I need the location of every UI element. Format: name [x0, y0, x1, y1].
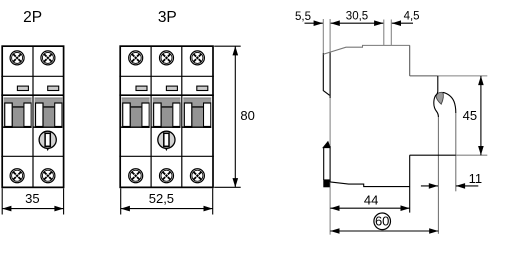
3P terminal screw top pole 1	[129, 51, 143, 65]
dimension 45 arrowheads	[478, 76, 484, 85]
svg-text:35: 35	[25, 191, 39, 206]
side view lower DIN clip	[323, 147, 325, 180]
3P lock knob	[158, 131, 175, 151]
dimension 30,5 line	[331, 22, 384, 24]
3P horizontal separator line 2	[119, 94, 213, 96]
svg-text:60: 60	[375, 214, 389, 229]
dimension 60 circle	[374, 213, 391, 230]
dimension 60 line	[330, 230, 438, 232]
3P toggle band pole 3	[182, 98, 211, 128]
dimension 35 line	[2, 208, 63, 210]
2P toggle band pole 1	[2, 98, 31, 128]
dimension 52,5 arrowheads	[121, 206, 130, 212]
2P pole divider	[32, 46, 34, 187]
dimension 5,5 arrow	[305, 22, 323, 24]
3P horizontal separator line 3	[119, 155, 213, 157]
2P toggle band pole 2	[33, 98, 62, 128]
svg-text:80: 80	[240, 108, 254, 123]
2P terminal screw top pole 2	[41, 51, 55, 65]
3P body outline	[120, 46, 213, 187]
3P indicator window pole 1	[136, 86, 147, 90]
dimension 44 arrowheads	[330, 205, 339, 211]
side view escutcheon bottom	[410, 154, 456, 156]
3P terminal screw bottom pole 1	[129, 169, 143, 183]
3P indicator window pole 2	[166, 86, 177, 90]
2P terminal screw top pole 1	[10, 51, 24, 65]
svg-text:3P: 3P	[158, 9, 177, 26]
2P horizontal separator line 2	[1, 94, 64, 96]
side view back edge bottom segment	[329, 146, 331, 182]
side view upper DIN clip	[323, 53, 329, 95]
side view top right corner edge	[409, 45, 411, 76]
side view front lower edge	[409, 155, 411, 212]
dimension 52,5 extension lines	[121, 188, 213, 214]
3P terminal screw bottom pole 2	[160, 169, 174, 183]
side view front bulge curve	[443, 92, 456, 113]
3P pole divider 2	[181, 46, 183, 187]
3P toggle band pole 1	[120, 98, 149, 128]
dimension 80 arrowheads	[233, 46, 239, 55]
dimension 4,5 arrow	[392, 22, 413, 24]
2P horizontal separator line 3	[1, 155, 64, 157]
side view front top step	[410, 75, 438, 77]
2P body outline	[2, 46, 63, 187]
3P toggle band pole 2	[151, 98, 180, 128]
side view back edge	[329, 52, 331, 98]
2P indicator window pole 1	[17, 86, 28, 90]
2P horizontal separator line 1	[1, 75, 64, 77]
side view front face edge	[455, 113, 457, 191]
side view bottom edge	[330, 182, 410, 187]
svg-text:30,5: 30,5	[346, 10, 368, 22]
3P horizontal separator line 1	[119, 75, 213, 77]
svg-text:11: 11	[469, 171, 483, 186]
3P terminal screw bottom pole 3	[190, 169, 204, 183]
svg-text:45: 45	[463, 108, 477, 123]
dimension 30,5 arrowheads	[331, 20, 340, 26]
side view back edge lower part / extension line	[329, 19, 331, 235]
2P lock knob	[39, 131, 56, 151]
svg-text:52,5: 52,5	[149, 191, 174, 206]
side view front top step extension	[438, 75, 488, 77]
3P indicator window pole 3	[197, 86, 208, 90]
svg-text:4,5: 4,5	[404, 10, 420, 22]
side view upper clip extension line	[322, 19, 324, 53]
dimension 11 arrows	[421, 185, 438, 187]
dimension 80 line	[234, 46, 236, 187]
side view front inner edge extension	[437, 117, 439, 234]
side view toggle extension line 2	[390, 20, 392, 46]
dimension 35 arrowheads	[2, 206, 11, 212]
svg-text:44: 44	[364, 193, 378, 208]
dimension 44 line	[330, 207, 409, 209]
dimension 45 line	[480, 76, 482, 155]
3P terminal screw top pole 3	[190, 51, 204, 65]
2P terminal screw bottom pole 2	[41, 169, 55, 183]
dimension 80 extension lines	[214, 46, 241, 187]
svg-text:2P: 2P	[23, 9, 42, 26]
side view lower DIN clip spring	[323, 142, 330, 148]
side view lower DIN clip foot	[323, 179, 330, 187]
3P pole divider 1	[150, 46, 152, 187]
side view toggle extension line 1	[383, 20, 385, 46]
dimension 35 extension lines	[2, 188, 63, 214]
svg-text:5,5: 5,5	[295, 11, 311, 23]
side view escutcheon bottom extension	[456, 154, 488, 156]
2P terminal screw bottom pole 1	[10, 169, 24, 183]
side view top edge	[323, 45, 409, 54]
2P indicator window pole 2	[48, 86, 59, 90]
side view front recess curve	[434, 76, 439, 117]
side view toggle boss gray	[436, 92, 443, 104]
dimension 60 arrowheads	[330, 228, 339, 234]
dimension 52,5 line	[121, 208, 213, 210]
3P terminal screw top pole 2	[160, 51, 174, 65]
